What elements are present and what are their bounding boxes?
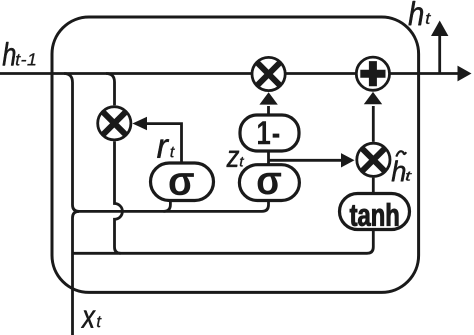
label h_t top right: [409, 1, 431, 25]
arrowhead into reset multiply: [132, 117, 147, 130]
1- box: [240, 115, 299, 151]
wire bus1 to sigma2: [77, 201, 269, 211]
arrowhead h_t up: [431, 21, 448, 37]
wire x_t vertical: [73, 211, 80, 335]
sigma box reset gate: [151, 163, 214, 201]
arrowhead h-line right: [458, 66, 472, 82]
wire candidate multiply to add: [372, 106, 375, 142]
wire bus2 x_t branch: [73, 230, 374, 254]
wire bus1 branch to sigma1: [164, 201, 171, 211]
label h_t-1: [3, 42, 36, 66]
wire z junction vertical: [267, 151, 270, 164]
multiply node reset: [98, 107, 131, 140]
sigma box update gate: [239, 165, 299, 201]
arrowhead into z multiply: [259, 92, 277, 104]
wire h-line horizontal: [0, 72, 459, 75]
wire 1- box to z multiply: [267, 106, 270, 115]
wire r gate feedback: [146, 124, 182, 162]
label x_t bottom: [81, 311, 102, 328]
label r_t: [157, 139, 175, 158]
arrowhead into candidate multiply: [341, 153, 355, 167]
arrowhead into add node: [364, 92, 382, 104]
tanh box: [340, 194, 410, 230]
multiply node candidate: [357, 143, 390, 176]
multiply node z gate: [252, 57, 285, 90]
wire reset multiply down with hop: [115, 141, 123, 253]
label z_t: [227, 151, 245, 167]
wire h branch left down: [64, 74, 79, 212]
add node: [356, 57, 389, 90]
wire h_t up branch: [438, 34, 441, 74]
cell body rounded rectangle: [52, 17, 419, 292]
wire tanh to candidate multiply: [372, 178, 375, 194]
wire h branch to reset multiply: [106, 74, 115, 106]
wire z to candidate multiply: [269, 159, 343, 162]
label h~_t candidate: [392, 151, 412, 181]
